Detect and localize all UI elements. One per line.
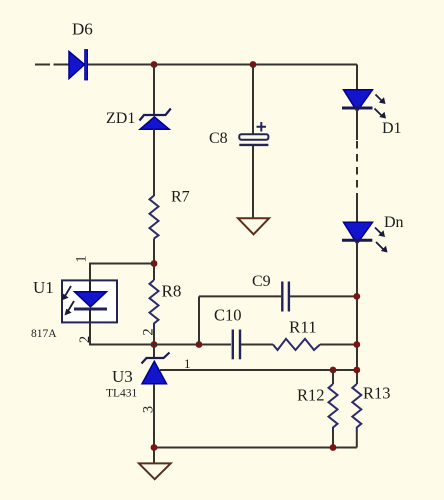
ground (C8) (238, 218, 269, 234)
svg-text:R13: R13 (363, 384, 391, 403)
wire U1 pin2 (90, 322, 154, 344)
svg-text:U3: U3 (112, 367, 133, 386)
wire C10 right (241, 344, 273, 346)
svg-text:R12: R12 (297, 386, 325, 405)
wire C-branch left vertical (198, 296, 200, 344)
wire top horizontal (87, 64, 357, 66)
junction dot B (253,64.5) (250, 61, 257, 68)
junction dot mid (154,344.5) (151, 341, 158, 348)
zener diode ZD1 (140, 109, 171, 130)
svg-text:817A: 817A (31, 328, 57, 340)
svg-text:C8: C8 (209, 130, 228, 147)
LED Dn (342, 222, 388, 252)
junction dot A (154,64.5) (151, 61, 158, 68)
capacitor C9 (282, 282, 289, 312)
resistor R12 (329, 370, 338, 448)
svg-text:ZD1: ZD1 (106, 110, 135, 127)
LED D1 (342, 65, 386, 119)
wire to Dn (356, 200, 358, 223)
wire U3 pin1 row (160, 369, 357, 371)
svg-text:D1: D1 (382, 120, 402, 137)
capacitor C8 (239, 65, 268, 219)
wire rail x154 upper (153, 65, 155, 115)
wire bottom row (154, 447, 357, 449)
svg-text:1: 1 (184, 356, 191, 371)
wire U3 cathode down (153, 384, 155, 463)
svg-text:2: 2 (140, 328, 156, 335)
ground (bottom) (139, 463, 171, 479)
junction dot (357,344.5) (353, 341, 360, 348)
resistor R8 (150, 280, 159, 330)
svg-text:1: 1 (74, 255, 90, 262)
capacitor C10 (233, 330, 240, 360)
wire D1 down (356, 109, 358, 140)
wire mid row to C-branch (154, 344, 231, 346)
svg-text:C10: C10 (214, 306, 242, 325)
wire R11 right (320, 344, 357, 346)
resistor R13 (352, 384, 361, 448)
svg-text:R7: R7 (171, 189, 190, 206)
wire R7 to R8 (153, 239, 155, 281)
wire U1 pin1 (90, 264, 154, 281)
svg-text:TL431: TL431 (106, 388, 138, 400)
junction dot (357,296.4) (353, 293, 360, 300)
optocoupler U1 (62, 280, 118, 322)
svg-text:3: 3 (140, 406, 156, 413)
svg-text:Dn: Dn (384, 214, 404, 231)
svg-text:R8: R8 (162, 282, 182, 301)
diode D6 (69, 50, 88, 81)
svg-text:2: 2 (77, 336, 93, 343)
wire ZD1 to R7 (153, 129, 155, 196)
wire top-left stub (35, 64, 69, 66)
svg-text:U1: U1 (33, 278, 54, 297)
wire C9 row right (290, 295, 357, 297)
resistor R7 (150, 196, 159, 239)
wire dashed segment (356, 141, 358, 200)
svg-text:R11: R11 (289, 318, 317, 337)
junction dot (154,447.5) (151, 444, 158, 451)
svg-text:D6: D6 (72, 20, 93, 39)
junction dot (199,344.5) (196, 341, 203, 348)
junction dot (333,447.5) (330, 444, 337, 451)
shunt regulator U3 (142, 353, 170, 384)
junction dot (357,370) (353, 367, 360, 374)
svg-text:C9: C9 (252, 273, 271, 290)
wire C9 row left (199, 295, 281, 297)
resistor R11 (273, 339, 320, 350)
wire R8 to U3 (153, 330, 155, 359)
junction dot (333,370) (330, 367, 337, 374)
wire right rail (356, 242, 358, 385)
junction dot U1-top (154,263.5) (151, 260, 158, 267)
